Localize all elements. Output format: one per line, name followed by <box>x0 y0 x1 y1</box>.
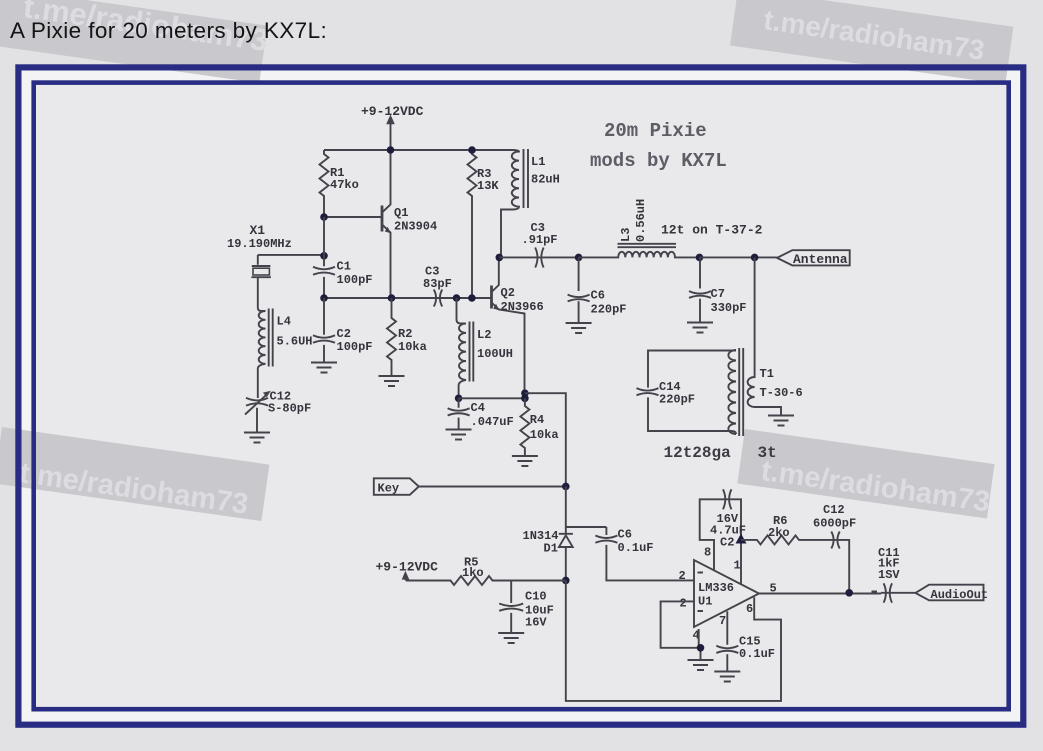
svg-text:19.190MHz: 19.190MHz <box>227 237 292 251</box>
svg-text:2ko: 2ko <box>768 526 790 540</box>
svg-text:C2: C2 <box>337 327 351 341</box>
arrow VCC audio <box>405 577 407 581</box>
svg-text:1: 1 <box>734 559 741 573</box>
inner border frame <box>34 83 1009 710</box>
capacitor C2 <box>313 298 335 363</box>
node C3-C6 <box>575 254 583 262</box>
node D1 bottom <box>562 577 570 585</box>
wire C14 tank box <box>648 351 736 435</box>
svg-text:82uH: 82uH <box>531 173 560 187</box>
ground under C6 <box>566 323 592 333</box>
ground under R4 <box>512 456 538 466</box>
wire base bus <box>324 297 492 299</box>
svg-text:13K: 13K <box>477 179 499 193</box>
ground under T1 <box>768 416 794 426</box>
inductor L3 <box>579 252 700 258</box>
wire power rail <box>324 149 513 151</box>
capacitor C14 <box>637 388 659 395</box>
ground under C2 <box>311 363 337 373</box>
svg-text:T1: T1 <box>760 367 774 381</box>
transistor Q2 <box>490 286 493 309</box>
diode D1 <box>559 534 573 581</box>
ground under U1 <box>688 660 714 670</box>
watermark band right-middle <box>737 429 995 519</box>
wire L3 to antenna <box>700 256 778 258</box>
svg-text:Antenna: Antenna <box>793 252 848 267</box>
svg-text:16V: 16V <box>525 616 547 630</box>
resistor R4 <box>520 398 529 456</box>
svg-text:12t28ga: 12t28ga <box>664 444 732 462</box>
node L2-C4 <box>455 395 463 403</box>
node rail-Q1 <box>387 146 395 154</box>
svg-text:0.1uF: 0.1uF <box>618 541 654 555</box>
capacitor C6 0.1uF <box>595 527 694 580</box>
capacitor C11 <box>872 583 917 602</box>
svg-text:100UH: 100UH <box>477 347 513 361</box>
ground under C12 <box>244 433 270 443</box>
watermark band top-left <box>0 0 270 83</box>
svg-text:.91pF: .91pF <box>522 233 558 247</box>
ground under C15 <box>714 672 740 682</box>
svg-text:D1: D1 <box>544 542 558 556</box>
resistor R3 <box>468 150 477 298</box>
text 12t28ga 3t <box>664 444 777 462</box>
svg-text:C10: C10 <box>525 590 547 604</box>
svg-text:8: 8 <box>704 546 711 560</box>
watermark band left-middle <box>0 427 269 523</box>
wire L2 to R4 <box>459 397 525 399</box>
svg-text:C4: C4 <box>471 401 485 415</box>
Key flag <box>374 478 419 495</box>
capacitor C4 <box>448 398 470 429</box>
node R4 top <box>521 395 529 403</box>
ground under C10 <box>498 633 524 643</box>
svg-text:C2: C2 <box>720 536 734 550</box>
svg-text:mods by KX7L: mods by KX7L <box>590 150 727 172</box>
svg-text:0.56uH: 0.56uH <box>634 199 648 242</box>
svg-text:C12: C12 <box>823 503 845 517</box>
svg-text:47ko: 47ko <box>330 178 359 192</box>
text +9-12VDC audio <box>376 560 439 575</box>
transformer T1 secondary wire <box>748 257 781 415</box>
crystal X1 <box>251 255 271 277</box>
svg-text:Key: Key <box>378 482 400 496</box>
svg-text:10ka: 10ka <box>530 428 559 442</box>
svg-text:12t on T-37-2: 12t on T-37-2 <box>661 223 763 238</box>
node L1-Q2 collector <box>496 254 504 262</box>
inductor L1 <box>501 150 519 257</box>
svg-text:100pF: 100pF <box>337 273 373 287</box>
svg-text:L1: L1 <box>531 155 545 169</box>
svg-text:L3: L3 <box>619 228 633 242</box>
capacitor C1 <box>313 217 335 298</box>
svg-text:20m Pixie: 20m Pixie <box>604 120 707 142</box>
wire D1 node to bottom loop <box>566 580 781 701</box>
svg-text:220pF: 220pF <box>591 303 627 317</box>
svg-text:A Pixie for 20 meters by KX7L:: A Pixie for 20 meters by KX7L: <box>10 18 327 43</box>
text 12t on T-37-2 <box>661 223 763 238</box>
svg-text:2: 2 <box>679 569 686 583</box>
svg-text:L4: L4 <box>277 315 291 329</box>
node pin1-R6 <box>736 534 747 544</box>
svg-text:0.1uF: 0.1uF <box>739 647 775 661</box>
wire base Q1 <box>324 216 382 218</box>
node antenna-T1 <box>751 254 759 262</box>
node output-C12 <box>845 589 853 597</box>
node L3-C7 <box>696 254 704 262</box>
svg-text:C7: C7 <box>711 287 725 301</box>
capacitor C12 6000pF <box>829 532 849 593</box>
svg-text:83pF: 83pF <box>423 277 452 291</box>
svg-text:C6: C6 <box>618 528 632 542</box>
wire R4 node to key line <box>525 393 566 486</box>
svg-text:AudioOut: AudioOut <box>931 588 989 602</box>
svg-text:6: 6 <box>746 602 753 616</box>
ground under R2 <box>379 376 405 386</box>
ground under C4 <box>446 430 472 440</box>
AudioOut flag <box>916 585 984 601</box>
svg-text:U1: U1 <box>698 595 712 609</box>
svg-text:.047uF: .047uF <box>471 415 514 429</box>
svg-text:L2: L2 <box>477 328 491 342</box>
wire key to line <box>419 486 566 488</box>
svg-text:R2: R2 <box>398 327 412 341</box>
node key junction <box>562 483 570 491</box>
inductor L2 <box>457 298 467 398</box>
node Q2 base L2 <box>453 294 461 302</box>
wire D1 branch to C6 <box>566 526 607 528</box>
transformer T1 primary <box>728 350 736 434</box>
VCC arrow <box>390 122 392 150</box>
svg-text:10ka: 10ka <box>398 340 427 354</box>
op-amp U1 <box>694 560 759 627</box>
svg-text:220pF: 220pF <box>659 393 695 407</box>
capacitor C7 330pF <box>689 257 711 322</box>
node base1 <box>320 213 328 221</box>
svg-text:5.6UH: 5.6UH <box>277 335 313 349</box>
svg-text:+9-12VDC: +9-12VDC <box>361 104 424 119</box>
svg-text:2N3966: 2N3966 <box>501 300 544 314</box>
svg-text:S-80pF: S-80pF <box>268 402 311 416</box>
capacitor C15 <box>716 611 738 671</box>
node U1 pin4 <box>697 644 705 652</box>
svg-text:2: 2 <box>680 597 687 611</box>
resistor R1 <box>320 150 329 217</box>
node C1-bus <box>320 294 328 302</box>
node rail-R3 <box>468 146 476 154</box>
node VCC label <box>361 104 424 119</box>
node emitter-R2 <box>388 294 396 302</box>
capacitor C12 variable <box>246 398 268 433</box>
svg-text:R4: R4 <box>530 413 544 427</box>
svg-text:1SV: 1SV <box>878 568 900 582</box>
svg-text:2N3904: 2N3904 <box>394 220 437 234</box>
capacitor C6 220pF <box>568 257 590 323</box>
resistor R6 <box>741 535 829 544</box>
svg-text:Q2: Q2 <box>501 286 515 300</box>
node Q2 base R3 <box>468 294 476 302</box>
svg-text:C6: C6 <box>591 289 605 303</box>
svg-text:100pF: 100pF <box>337 340 373 354</box>
capacitor C3 83pF <box>432 290 445 307</box>
wire X1 to C1 node <box>258 254 324 256</box>
svg-text:C1: C1 <box>337 260 351 274</box>
svg-text:6000pF: 6000pF <box>813 517 856 531</box>
ground under C7 <box>687 323 713 333</box>
inductor L4 <box>258 277 266 398</box>
node X1-C1 <box>320 252 328 260</box>
watermark band top-right <box>730 0 1013 84</box>
resistor R5 <box>406 576 566 585</box>
svg-text:1ko: 1ko <box>462 566 484 580</box>
svg-text:Q1: Q1 <box>394 206 408 220</box>
svg-text:+9-12VDC: +9-12VDC <box>376 560 439 575</box>
text 20m Pixie <box>590 120 727 172</box>
svg-text:3t: 3t <box>758 444 777 462</box>
resistor R2 <box>387 298 396 376</box>
wire U1 inverting loop <box>661 601 701 660</box>
antenna flag <box>777 250 850 265</box>
capacitor C10 <box>499 581 523 634</box>
svg-text:LM336: LM336 <box>698 581 734 595</box>
svg-text:T-30-6: T-30-6 <box>760 386 803 400</box>
svg-text:330pF: 330pF <box>711 301 747 315</box>
svg-text:X1: X1 <box>250 223 266 238</box>
wire key line down <box>565 486 567 533</box>
wire U1 pin8 loop <box>700 499 721 570</box>
capacitor C3 .91pF <box>499 248 578 268</box>
wire U1 output <box>759 593 881 595</box>
svg-text:7: 7 <box>719 614 726 628</box>
capacitor C2 4.7uF <box>721 489 741 584</box>
transistor Q1 <box>381 206 384 232</box>
